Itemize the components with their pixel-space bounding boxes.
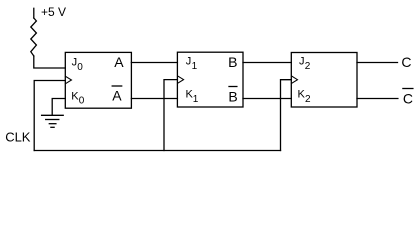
overline Cbar — [403, 88, 413, 90]
wire Cbar output — [357, 98, 398, 100]
flip-flop U3 box — [291, 53, 357, 108]
wire resistor to J0 — [34, 56, 66, 68]
clock chevron U3 — [292, 76, 298, 83]
svg-text:A: A — [112, 88, 122, 104]
svg-text:2: 2 — [305, 61, 311, 72]
svg-text:J: J — [72, 57, 78, 69]
ground — [42, 114, 64, 116]
clock chevron U1 — [66, 76, 72, 83]
wire K0 to ground — [52, 99, 65, 116]
flip-flop U1 box — [65, 52, 131, 108]
wire Abar to K1 — [131, 98, 177, 100]
wire CLK branch to U3 clock — [281, 80, 292, 151]
wire Bbar to K2 — [243, 98, 291, 100]
overline Abar — [112, 85, 122, 87]
svg-text:B: B — [228, 88, 237, 104]
svg-text:C: C — [401, 54, 411, 70]
svg-text:J: J — [299, 56, 305, 68]
svg-text:1: 1 — [193, 94, 199, 105]
wire CLK branch to U2 clock — [164, 80, 177, 151]
resistor R1 zigzag — [31, 18, 37, 56]
wire C output — [357, 62, 398, 64]
wire B to J2 — [243, 62, 291, 64]
svg-text:CLK: CLK — [5, 129, 31, 144]
svg-text:B: B — [228, 54, 237, 70]
svg-text:C: C — [403, 90, 413, 106]
svg-text:2: 2 — [305, 94, 311, 105]
overline Bbar — [229, 86, 237, 88]
+5 V supply stub — [33, 8, 35, 18]
wire CLK bus — [34, 150, 280, 152]
svg-text:0: 0 — [77, 62, 83, 73]
wire A to J1 — [131, 62, 177, 64]
wire CLK branch to U1 clock — [34, 81, 65, 151]
svg-text:1: 1 — [192, 61, 198, 72]
clock chevron U2 — [178, 76, 184, 83]
svg-text:J: J — [186, 56, 192, 68]
svg-text:0: 0 — [79, 95, 85, 106]
flip-flop U2 box — [177, 52, 243, 107]
svg-text:+5 V: +5 V — [41, 5, 66, 19]
svg-text:A: A — [114, 54, 124, 70]
